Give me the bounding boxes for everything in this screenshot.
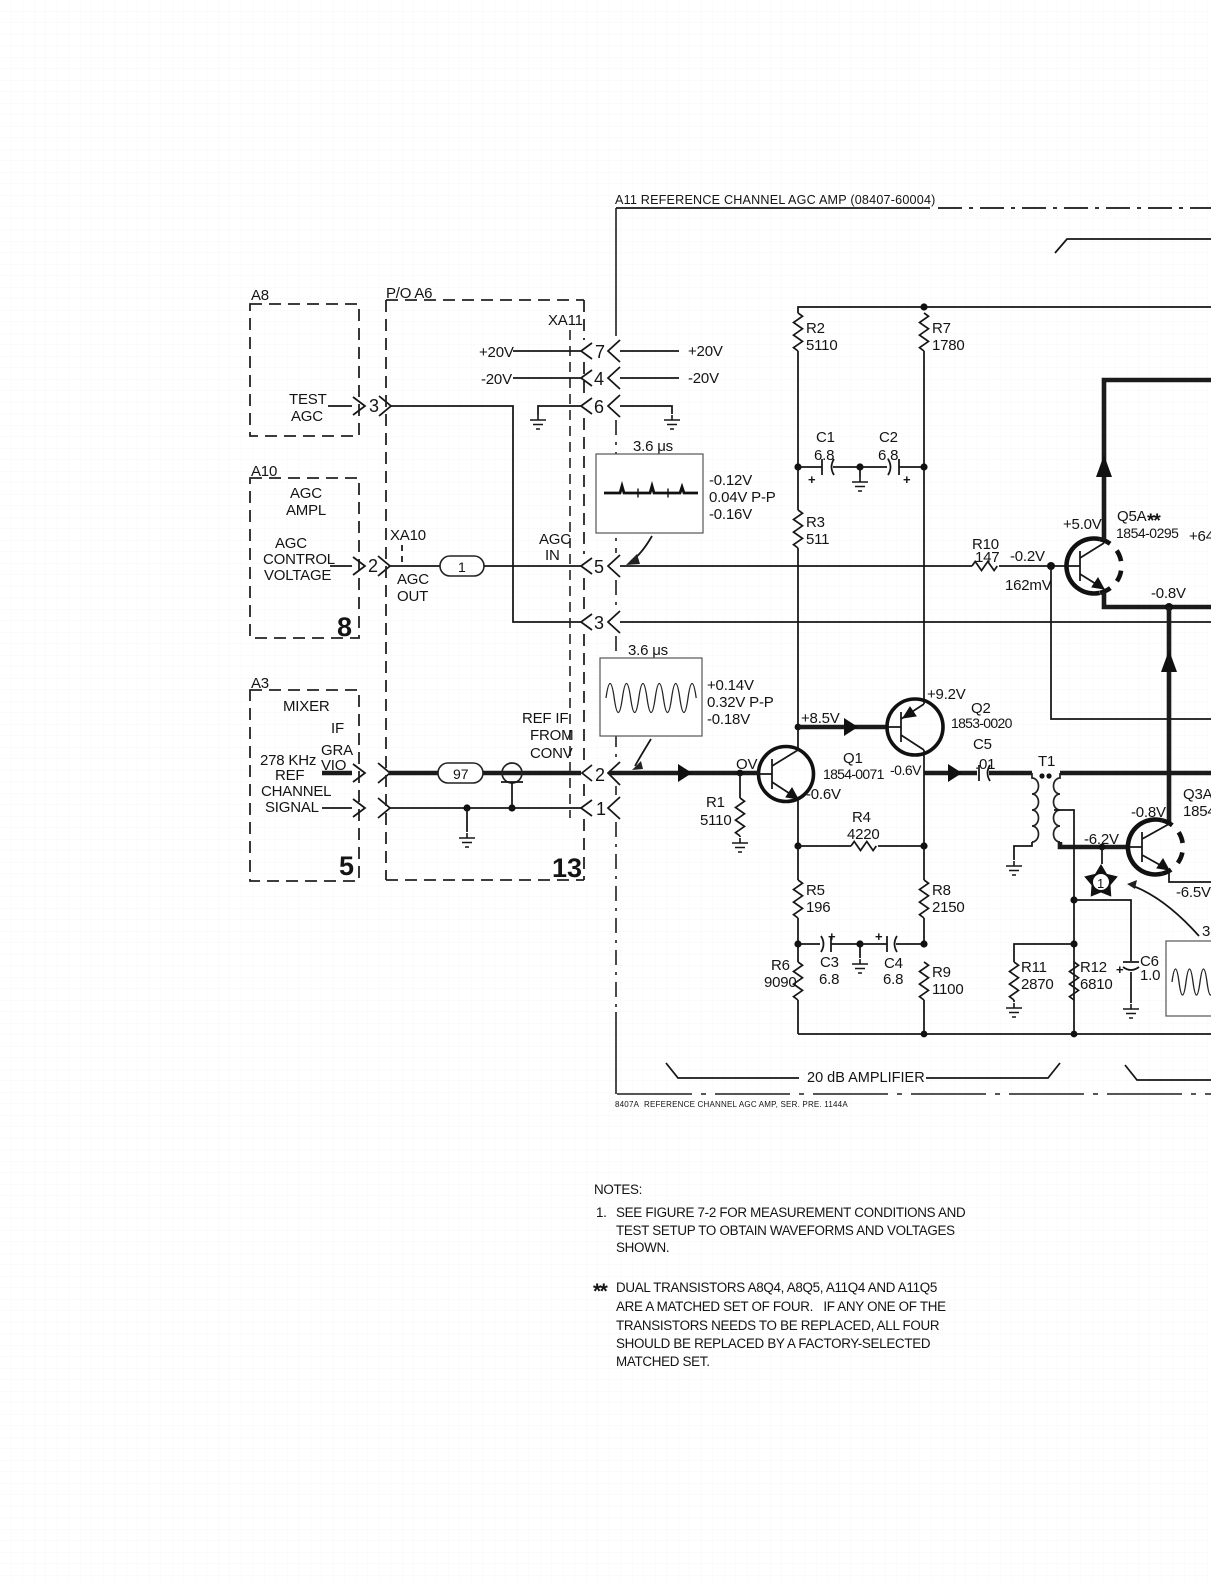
svg-text:-6.2V: -6.2V [1084,831,1119,848]
svg-text:AGC: AGC [275,535,307,552]
T1 secondary bottom to Q3A base [1060,842,1129,847]
svg-text:+5.0V: +5.0V [1063,516,1102,533]
svg-text:R11: R11 [1021,959,1047,976]
wire AGC OUT to cable oval [390,565,440,567]
node C3 junction [794,940,801,947]
svg-text:A11 REFERENCE CHANNEL AGC AMP: A11 REFERENCE CHANNEL AGC AMP (08407-600… [615,193,936,207]
junction and ground between C1 C2 [856,463,863,470]
XA11 connector dashed line [569,330,571,818]
current arrow up [1161,650,1177,672]
node -0.2V junction [1047,562,1055,570]
svg-text:1.0: 1.0 [1140,967,1160,984]
+20V rail [798,307,1211,313]
svg-text:R6: R6 [771,957,790,974]
svg-text:147: 147 [975,549,999,566]
capacitor C5 [973,736,995,781]
cable number oval 1 [440,556,484,576]
T1 primary ground [1014,842,1032,860]
svg-text:-0.8V: -0.8V [1151,585,1186,602]
svg-text:6.8: 6.8 [878,447,898,464]
curved arrow waveform 1 to pin 5 [631,536,652,561]
A10 pin 2 output arrow [330,556,390,576]
thick REF IF wire to cable oval 97 [389,771,440,776]
svg-text:1: 1 [596,799,606,819]
Q5A emitter thick wire down right [1104,592,1211,607]
wire R3 down to Q1 collector node [797,467,799,727]
top-right section bracket [1055,239,1211,253]
svg-text:4: 4 [594,369,604,389]
junction at R7 top [920,303,927,310]
thick input wire pin2 to Q1 base [609,771,759,776]
capacitor C6 [1116,953,1160,1003]
svg-text:+20V: +20V [688,343,723,360]
svg-text:MATCHED SET.: MATCHED SET. [616,1354,710,1369]
svg-text:1100: 1100 [932,981,963,998]
svg-text:SHOULD BE REPLACED BY A FACTOR: SHOULD BE REPLACED BY A FACTORY-SELECTED [616,1336,931,1351]
XA11 pin 2 (thick) [582,762,620,785]
ground on shield line [466,808,468,832]
svg-text:+: + [828,929,836,944]
svg-text:A8: A8 [251,287,269,304]
svg-text:-20V: -20V [688,370,719,387]
svg-text:C3: C3 [820,954,839,971]
curved arrow waveform 2 to pin 2 [635,739,651,766]
waveform box 3 (sine, clipped) [1166,923,1211,1016]
cable number oval 97 [438,763,483,783]
transistor Q5A (dual, dashed half) [1066,538,1121,593]
transformer T1 [1032,753,1060,842]
svg-text:TEST: TEST [289,391,327,408]
svg-text:T1: T1 [1038,753,1055,770]
svg-text:CONV: CONV [530,745,573,762]
svg-text:5: 5 [594,557,604,577]
resistor R7 [920,313,929,351]
node OV junction [737,770,744,777]
svg-text:+20V: +20V [479,344,514,361]
svg-text:5110: 5110 [700,812,731,829]
transistor Q2 [887,699,943,755]
svg-text:3: 3 [1202,923,1210,940]
svg-text:AGC: AGC [290,485,322,502]
svg-text:5110: 5110 [806,337,837,354]
svg-text:C4: C4 [884,955,903,972]
svg-text:5: 5 [339,851,354,881]
wire R10 to Q5A base [999,565,1067,567]
svg-text:8407A REFERENCE CHANNEL AGC A: 8407A REFERENCE CHANNEL AGC AMP, SER. PR… [615,1100,848,1109]
resistor R2 [794,313,803,351]
svg-text:+: + [1116,962,1124,977]
A3 shield line output arrow [322,798,390,818]
svg-text:196: 196 [806,899,830,916]
wire Q2 collector chain down [923,773,925,846]
transistor Q1 [759,727,814,846]
shield ground line from A3 to XA11 pin 1 [390,807,581,809]
svg-text:DUAL TRANSISTORS A8Q4, A8Q5, A: DUAL TRANSISTORS A8Q4, A8Q5, A11Q4 AND A… [616,1280,937,1295]
box A8 TEST AGC [250,287,359,436]
svg-text:IF: IF [331,720,344,737]
capacitor C2 [860,429,924,487]
svg-text:AGC: AGC [539,531,571,548]
ground on A6 side of pin 6 [538,406,581,415]
box A3 MIXER [250,675,359,881]
svg-text:511: 511 [806,531,829,548]
svg-text:6.8: 6.8 [819,971,839,988]
svg-text:AMPL: AMPL [286,502,326,519]
svg-text:SIGNAL: SIGNAL [265,799,319,816]
node R4 left junction [794,842,801,849]
svg-text:1: 1 [1097,876,1104,891]
wire AGC down and right to edge [1051,566,1211,719]
node C1 junction [794,463,801,470]
Q2 collector down + thick wire to C5 [923,753,925,773]
svg-text:C5: C5 [973,736,992,753]
wire +20V to pin 7 [513,350,581,352]
svg-text:+: + [875,929,883,944]
wire pin 7 to +20V label right [620,350,679,352]
wire R2 to C1 node [797,351,799,467]
svg-text:XA10: XA10 [390,527,426,544]
svg-text:TEST SETUP TO OBTAIN WAVEFORMS: TEST SETUP TO OBTAIN WAVEFORMS AND VOLTA… [616,1223,955,1238]
svg-text:3: 3 [369,396,379,416]
svg-text:1854-0295: 1854-0295 [1116,525,1179,541]
curved arrow waveform 3 to star [1133,886,1199,936]
svg-text:4220: 4220 [847,826,880,843]
resistor R6 [797,944,799,962]
wire pin 4 to -20V label right [620,377,679,379]
box A10 AGC AMPL [250,463,359,642]
svg-text:.01: .01 [975,756,995,773]
svg-text:1780: 1780 [932,337,965,354]
wire TEST AGC from A8 to XA11 pin 3 [391,406,581,622]
svg-text:C2: C2 [879,429,898,446]
svg-text:R9: R9 [932,964,951,981]
+8.5V node and thick wire to Q2 base [795,724,802,731]
svg-text:1853-0020: 1853-0020 [951,715,1013,731]
svg-text:1.: 1. [596,1205,607,1220]
wire pin3 line to right edge [620,621,1211,623]
A11 boundary top underline [616,207,930,209]
svg-text:OUT: OUT [397,588,428,605]
svg-text:CHANNEL: CHANNEL [261,783,331,800]
svg-text:1: 1 [458,559,466,575]
svg-text:CONTROL: CONTROL [263,551,335,568]
XA11 pin 6 [581,395,620,417]
XA11 pin 1 [581,797,620,819]
XA11 pin 5 [581,555,620,577]
A11 boundary left vertical dashed [615,208,617,336]
A3 REF signal output arrow (thick) [322,763,390,783]
svg-text:20 dB AMPLIFIER: 20 dB AMPLIFIER [807,1070,925,1086]
resistor R1 [739,773,741,798]
node R11 junction [1070,940,1077,947]
junction on shield line [463,804,470,811]
svg-text:SEE FIGURE 7-2 FOR MEASUREMENT: SEE FIGURE 7-2 FOR MEASUREMENT CONDITION… [616,1205,966,1220]
A11 boundary bottom dash-dot [617,1093,1211,1095]
wire AGC line pin5 to R10 [620,565,972,567]
bottom rail [798,1033,1211,1035]
svg-text:**: ** [593,1280,609,1303]
svg-text:NOTES:: NOTES: [594,1182,642,1197]
svg-text:2150: 2150 [932,899,965,916]
XA11 pin 4 [581,367,620,389]
junction at -0.8V node [1165,603,1173,611]
resistor R11 [1014,944,1074,962]
svg-text:7: 7 [595,342,605,362]
svg-text:2: 2 [368,556,378,576]
wire oval to XA11 pin 5 [484,565,581,567]
svg-text:+9.2V: +9.2V [927,686,966,703]
svg-text:9090: 9090 [764,974,797,991]
svg-text:ARE A MATCHED SET OF FOUR. I: ARE A MATCHED SET OF FOUR. IF ANY ONE OF… [616,1299,946,1314]
resistor R8 [923,846,925,880]
capacitor C1 [798,429,860,487]
svg-text:Q1: Q1 [843,750,863,767]
svg-text:SHOWN.: SHOWN. [616,1240,669,1255]
svg-text:2870: 2870 [1021,976,1054,993]
svg-text:+64m: +64m [1189,528,1211,545]
svg-text:VOLTAGE: VOLTAGE [264,567,331,584]
waveform box 1 (pulse) [596,438,776,533]
wire to C6 [1074,900,1131,961]
svg-text:-6.5V: -6.5V [1176,884,1211,901]
svg-text:REF: REF [275,767,304,784]
resistor R5 [797,846,799,880]
thick wire down to Q3A collector [1167,607,1172,823]
svg-text:0.32V P-P: 0.32V P-P [707,694,774,711]
svg-text:R5: R5 [806,882,825,899]
coax shield circle symbol [501,763,523,812]
T1 secondary tap down [1054,810,1074,1034]
svg-text:R12: R12 [1080,959,1107,976]
svg-text:+8.5V: +8.5V [801,710,840,727]
svg-text:162mV: 162mV [1005,577,1052,594]
svg-text:R4: R4 [852,809,871,826]
svg-text:6.8: 6.8 [814,447,834,464]
thick REF IF wire oval to XA11 pin 2 [483,771,581,776]
notes block [593,1182,966,1369]
A8 pin 3 output arrow [328,396,391,416]
current arrow up [1096,455,1112,477]
Q3A emitter wire right [1169,871,1211,882]
svg-text:XA11: XA11 [548,312,583,329]
20 dB AMPLIFIER bracket [666,1063,799,1078]
wire pin 6 to ground right [620,406,672,414]
svg-text:-0.16V: -0.16V [709,506,752,523]
svg-text:-0.8V: -0.8V [1131,804,1166,821]
svg-text:-0.6V: -0.6V [806,786,841,803]
svg-text:-20V: -20V [481,371,512,388]
svg-text:R1: R1 [706,794,725,811]
right section bracket [1125,1065,1211,1080]
svg-text:1854-0071: 1854-0071 [823,766,885,782]
thick wire C5 to T1 [989,771,1032,776]
svg-text:6: 6 [594,397,604,417]
resistor R9 [920,962,929,1000]
capacitor C4 [860,929,924,988]
svg-text:MIXER: MIXER [283,698,330,715]
svg-text:Q5A: Q5A [1117,508,1147,525]
resistor R3 [794,510,803,548]
wire -20V to pin 4 [513,377,581,379]
transistor Q3A (dual, dashed half) [1128,820,1183,875]
svg-text:2: 2 [595,765,605,785]
svg-text:FROM: FROM [530,727,573,744]
node tap junction for C6 [1070,896,1077,903]
svg-text:97: 97 [453,766,469,782]
svg-text:-0.6V: -0.6V [890,762,922,778]
resistor R4 [798,845,851,847]
svg-text:C1: C1 [816,429,835,446]
svg-text:3.6 μs: 3.6 μs [633,438,673,455]
svg-text:-0.12V: -0.12V [709,472,752,489]
svg-text:AGC: AGC [291,408,323,425]
box P/O A6 [386,285,584,883]
svg-text:AGC: AGC [397,571,429,588]
svg-text:IN: IN [545,547,560,564]
Q5A collector thick wire up to top rail [1104,380,1211,540]
svg-text:R3: R3 [806,514,825,531]
svg-text:REF IF: REF IF [522,710,568,727]
svg-text:1854-: 1854- [1183,803,1211,820]
svg-text:R8: R8 [932,882,951,899]
svg-text:6.8: 6.8 [883,971,903,988]
svg-text:OV: OV [736,756,757,773]
svg-text:-0.2V: -0.2V [1010,548,1045,565]
junction and ground between C3 C4 [856,940,863,947]
XA11 pin 7 [581,340,620,362]
thick wire T1 secondary to right edge [1060,771,1211,776]
svg-text:Q3A: Q3A [1183,786,1211,803]
svg-text:0.04V P-P: 0.04V P-P [709,489,776,506]
svg-text:3.6 μs: 3.6 μs [628,642,668,659]
svg-text:R7: R7 [932,320,951,337]
svg-text:+0.14V: +0.14V [707,677,754,694]
svg-text:6810: 6810 [1080,976,1113,993]
svg-text:R2: R2 [806,320,825,337]
waveform box 2 (sine) [600,642,774,736]
note flag star 1 [1084,847,1118,897]
wire R7 down to Q2 [923,351,925,700]
svg-text:3: 3 [594,613,604,633]
resistor R12 [1070,962,1079,1000]
svg-text:-0.18V: -0.18V [707,711,750,728]
capacitor C3 [798,929,860,988]
XA11 pin 3 [581,611,620,633]
resistor R10 [972,562,997,571]
svg-text:13: 13 [552,853,582,883]
svg-text:TRANSISTORS NEEDS TO BE REPLAC: TRANSISTORS NEEDS TO BE REPLACED, ALL FO… [616,1318,940,1333]
svg-text:+: + [903,472,911,487]
svg-text:+: + [808,472,816,487]
svg-text:8: 8 [337,612,352,642]
